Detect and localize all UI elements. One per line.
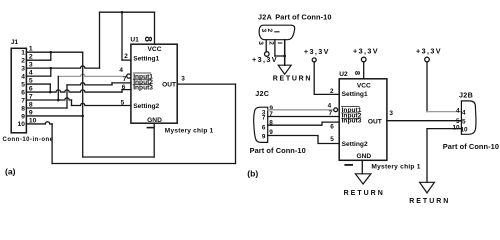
- wire Setting1 stub: [122, 59, 131, 61]
- wire jog pin7 to Setting2 row: [71, 100, 73, 105]
- node junction J2A return: [283, 55, 286, 58]
- svg-text:2: 2: [330, 88, 334, 95]
- svg-text:OUT: OUT: [162, 81, 176, 88]
- wire U2 GND down: [361, 160, 363, 174]
- svg-text:2: 2: [124, 53, 128, 60]
- wire J2A pin2 down: [274, 40, 276, 56]
- wire +3.3V flag to U2 Setting1: [314, 62, 339, 95]
- svg-text:Conn-10-in-one: Conn-10-in-one: [3, 137, 54, 143]
- U1 Input1 overbar: [133, 72, 151, 74]
- wire ground rail horizontal: [83, 156, 155, 158]
- wire U1 GND stub: [153, 123, 155, 157]
- ground RETURN triangle J2B: [420, 182, 435, 193]
- connector J2A: [259, 25, 295, 40]
- U2 Input2 overbar: [342, 112, 360, 114]
- wire J1 pin3 to VCC riser: [26, 66, 99, 68]
- svg-text:6: 6: [262, 124, 266, 131]
- ground RETURN triangle J2A: [278, 65, 291, 74]
- svg-text:J2B: J2B: [459, 91, 473, 100]
- svg-text:5: 5: [330, 136, 334, 143]
- U2 GND pin 1 number dash: [345, 164, 352, 166]
- svg-text:U1: U1: [130, 37, 139, 44]
- svg-text:5: 5: [121, 100, 125, 107]
- U1 Input2 overbar: [133, 78, 151, 80]
- connector J2C: [254, 107, 268, 142]
- ground RETURN triangle U2: [355, 174, 371, 184]
- svg-text:8: 8: [142, 36, 153, 42]
- wire pin10 drop to bottom rail: [51, 124, 53, 164]
- svg-text:6: 6: [122, 84, 126, 91]
- wire Input2 run: [67, 83, 112, 85]
- wire feedback riser: [235, 84, 237, 163]
- connector J1: [11, 48, 26, 133]
- svg-text:3: 3: [257, 41, 264, 45]
- U1 Input3 overbar: [133, 84, 151, 86]
- svg-text:6: 6: [21, 89, 25, 96]
- wire jog pin6 to Input3 row: [121, 90, 123, 92]
- svg-text:7: 7: [21, 97, 25, 104]
- svg-text:VCC: VCC: [357, 82, 371, 89]
- wire Input3 stub into U1: [122, 89, 131, 91]
- wire J1 pin8: [26, 107, 67, 109]
- svg-text:10: 10: [18, 121, 26, 128]
- wire Input1 riser to pin7 row: [57, 76, 59, 100]
- U1 GND pin 1 number dash: [147, 127, 153, 129]
- U2 Input1 overbar: [342, 106, 360, 108]
- svg-text:10: 10: [452, 124, 460, 131]
- svg-text:5: 5: [21, 81, 25, 88]
- wire J1 pin2: [26, 59, 50, 61]
- svg-text:7: 7: [123, 76, 127, 83]
- svg-text:7: 7: [262, 114, 266, 121]
- svg-text:RETURN: RETURN: [409, 198, 450, 205]
- svg-text:4: 4: [456, 107, 460, 114]
- svg-text:GND: GND: [147, 117, 162, 124]
- svg-text:8: 8: [21, 105, 25, 112]
- svg-text:5: 5: [462, 119, 466, 126]
- svg-text:3: 3: [21, 65, 25, 72]
- wire tie pin1-pin2: [50, 52, 52, 60]
- svg-text:4: 4: [328, 103, 332, 110]
- wire J1 pin5: [26, 83, 50, 85]
- wire J1 pin6 to Input3 jog: [26, 90, 122, 92]
- svg-text:3: 3: [260, 29, 267, 33]
- U1 inverting bubble Input1: [127, 74, 131, 78]
- wire J2C to U2 Input3: [268, 122, 340, 125]
- IC U2 mystery chip box: [339, 79, 387, 161]
- power flag circle Setting1: [312, 58, 316, 62]
- node junction pins1-2: [50, 51, 53, 54]
- svg-text:3: 3: [181, 76, 185, 83]
- svg-text:(a): (a): [5, 166, 16, 176]
- wire J1 pin10: [26, 122, 52, 124]
- svg-text:Setting1: Setting1: [342, 91, 368, 98]
- wire U1 OUT to feedback: [177, 83, 235, 85]
- svg-text:9: 9: [21, 113, 25, 120]
- wire riser pin8 to Input2 run: [66, 85, 68, 108]
- svg-text:Setting2: Setting2: [133, 103, 159, 110]
- node junction pin5-pin6: [49, 91, 52, 94]
- svg-text:Input3: Input3: [133, 85, 153, 92]
- wire jog Input2: [111, 83, 113, 85]
- wire top VCC rail: [100, 11, 155, 13]
- wire J2A pin1 to return: [284, 40, 286, 65]
- svg-text:2: 2: [268, 41, 275, 45]
- svg-text:VCC: VCC: [148, 46, 162, 53]
- svg-text:RETURN: RETURN: [344, 190, 385, 197]
- wire J2A pin2 to pin1 join: [275, 55, 285, 57]
- wire J1 pin1 to ground bus: [26, 51, 82, 53]
- IC U1 mystery chip box: [131, 44, 177, 123]
- svg-text:U2: U2: [339, 71, 348, 78]
- wire tie pin3-pin4: [50, 68, 52, 76]
- node junction pins3-4: [50, 67, 53, 70]
- svg-text:7: 7: [329, 110, 333, 117]
- wire J2B net10 to return: [427, 129, 461, 183]
- svg-text:OUT: OUT: [368, 118, 382, 125]
- U2 Input3 overbar: [342, 117, 360, 119]
- wire J1 pin4: [26, 75, 50, 77]
- wire U2 OUT to J2B: [387, 120, 462, 122]
- svg-text:9: 9: [262, 134, 266, 141]
- wire Input2 stub into U1: [112, 82, 131, 84]
- J2A pin 1 number dash: [275, 31, 279, 33]
- power flag +3,3V circle J2A: [265, 52, 270, 57]
- wire J1 pin9 to ground bus: [26, 115, 82, 117]
- svg-text:+3,3V: +3,3V: [304, 47, 330, 56]
- svg-text:2: 2: [266, 29, 273, 33]
- wire VCC drop to U1: [154, 12, 156, 44]
- J2A net 1 label dash: [278, 42, 282, 44]
- wire Input1 row faint: [58, 74, 126, 76]
- wire bottom feedback rail: [52, 163, 235, 165]
- svg-text:J2C: J2C: [255, 89, 269, 98]
- node junction pin9 ground bus: [81, 115, 84, 118]
- wire tie pin5-pin6: [49, 84, 51, 92]
- svg-text:Mystery chip 1: Mystery chip 1: [165, 127, 214, 134]
- wire +3.3V flag to U2 VCC: [363, 62, 365, 79]
- svg-text:10: 10: [461, 127, 469, 134]
- svg-text:6: 6: [330, 123, 334, 130]
- svg-text:8: 8: [353, 71, 362, 75]
- power flag circle VCC: [361, 57, 366, 62]
- wire Setting2 row to U1: [72, 103, 132, 105]
- svg-text:(b): (b): [247, 169, 258, 179]
- svg-text:4: 4: [21, 73, 25, 80]
- svg-text:+3,3V: +3,3V: [252, 55, 278, 64]
- svg-text:+3,3V: +3,3V: [353, 47, 379, 56]
- node junction top rail: [121, 11, 124, 14]
- svg-text:Setting2: Setting2: [342, 141, 368, 148]
- U2 inverting bubble Input1: [334, 108, 338, 112]
- svg-text:Setting1: Setting1: [133, 55, 159, 62]
- svg-text:1: 1: [21, 50, 25, 57]
- wire J2C to U2 Setting2: [268, 136, 340, 144]
- svg-text:Mystery chip 1: Mystery chip 1: [371, 163, 420, 170]
- wire +3.3V flag down to J2B net4: [426, 62, 428, 112]
- wire J2C to U2 Input2: [268, 116, 340, 118]
- svg-text:GND: GND: [356, 153, 371, 160]
- svg-text:2: 2: [21, 57, 25, 64]
- svg-text:Part of Conn-10: Part of Conn-10: [275, 12, 331, 21]
- node junction Input1-pin7: [57, 99, 60, 102]
- connector J2B: [461, 101, 476, 134]
- svg-text:RETURN: RETURN: [273, 76, 312, 83]
- wire VCC riser from pin3 row: [99, 12, 101, 68]
- wire J1 pin7: [26, 98, 71, 100]
- svg-text:Part of Conn-10: Part of Conn-10: [443, 142, 499, 151]
- svg-text:+3,3V: +3,3V: [416, 47, 442, 56]
- wire net4 into J2B: [427, 111, 461, 113]
- svg-text:J1: J1: [11, 39, 19, 46]
- wire rail drop to Setting1: [121, 12, 123, 60]
- svg-text:4: 4: [119, 67, 123, 74]
- svg-text:Part of Conn-10: Part of Conn-10: [250, 146, 306, 155]
- wire J2A pin3 to +3.3V flag: [265, 40, 267, 52]
- svg-text:3: 3: [389, 110, 393, 117]
- svg-text:4: 4: [462, 110, 466, 117]
- wire J2C to U2 Input1: [268, 109, 335, 111]
- svg-text:J2A: J2A: [258, 12, 272, 21]
- power flag circle J2B: [425, 57, 430, 62]
- wire ground bus vertical: [82, 52, 84, 157]
